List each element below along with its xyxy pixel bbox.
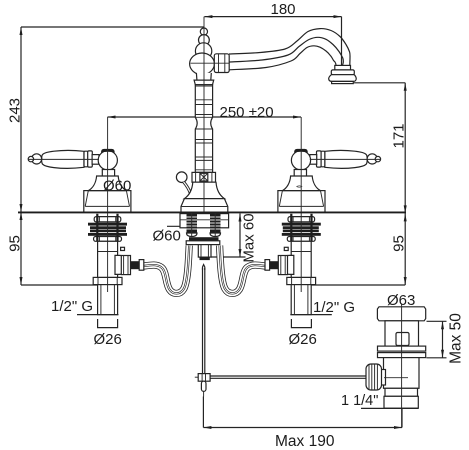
right hose collar [265,260,270,271]
column flare [194,80,214,85]
left escutcheon outer [84,191,131,213]
svg-text:180: 180 [271,1,296,18]
drain tailpiece lower [384,396,418,408]
spout outlet collar [335,65,351,70]
dimension 180 line [204,15,341,84]
left handle top cap [101,149,115,153]
set screw square [200,173,208,181]
left hose collar [139,260,144,271]
Ø60 center leader [167,221,184,227]
hub horizontal centerline [191,62,230,64]
right pipe lower [291,285,311,315]
deck line [18,211,406,213]
left handle group [28,149,131,212]
svg-text:Max 50: Max 50 [448,313,465,364]
1 1/4 underline [361,407,418,409]
right studs [310,214,312,241]
svg-text:1 1/4": 1 1/4" [341,393,378,409]
svg-text:243: 243 [6,98,23,123]
right top piece [288,217,315,222]
center mounting plate below deck [180,214,229,228]
svg-text:171: 171 [390,123,407,148]
svg-text:Ø60: Ø60 [103,178,131,195]
right ferrule [270,261,279,269]
Ø26 bracket right [291,319,311,328]
rod end capsule [201,381,206,391]
svg-text:Ø60: Ø60 [153,228,181,245]
right handle neck [310,155,317,165]
right coupling ring [287,277,316,284]
right escutcheon etching [297,186,302,188]
drain lower body [384,358,420,389]
center threaded stud right [210,214,221,233]
spout outlet bulge [329,75,357,82]
Ø26 bracket left [98,319,118,328]
drain knurled wheel neck [381,370,386,386]
svg-text:1/2" G: 1/2" G [313,299,355,316]
pop-up rod vertical [195,265,210,397]
left hex nut [121,256,130,275]
dimension 95 right vertical line [312,213,407,285]
center bracket dark bar [189,237,219,241]
spout collar ring [214,54,229,73]
left handle collar rings [84,151,88,167]
left pipe upper [98,241,118,277]
right 1/2G underline [290,314,332,316]
right handle group (mirror) [278,149,381,212]
left handle end nub [28,156,33,161]
center escutcheon dome [184,182,224,198]
svg-text:1/2" G: 1/2" G [51,298,93,315]
dimension Max 50 [427,321,447,358]
right handle end nub [375,156,380,161]
column centerline [203,17,205,212]
right handle stem [294,170,306,177]
dimension Max 190 [203,397,402,430]
right elbow bulge [283,255,293,274]
dimension Max 60 [211,214,246,258]
center unit centerlines below deck [191,213,193,236]
column collar block [192,172,216,182]
right escutcheon dome [282,176,320,191]
column tube [195,85,212,173]
right handle centerline horizontal [310,158,381,160]
center threaded stud left [187,214,198,233]
left valve centerline below deck [107,213,109,292]
dimension 95 left vertical line [20,212,99,285]
left handle stem [102,170,114,177]
center manifold bottom cap [200,257,210,260]
center bracket white plate [186,241,220,245]
right valve centerline below deck [300,213,302,292]
svg-text:Max 190: Max 190 [275,433,335,450]
center stud lower caps [187,233,198,237]
right handle pivot ball [291,151,310,170]
right valve under-deck group (mirror) [265,214,332,315]
right nut [287,237,315,242]
center escutcheon base [181,199,228,213]
left pipe lower [98,285,118,315]
left handle neck [92,155,99,165]
right handle end knob [367,154,377,164]
right handle grip [325,150,367,168]
spout outlet upper ring [331,70,354,75]
drain flange [377,307,425,321]
pop-up knob arm [184,182,191,195]
drain overflow window [396,333,409,346]
right escutcheon outer [278,191,325,213]
left coupling ring [93,277,122,284]
left handle grip [42,150,84,168]
left handle centerline vertical [107,117,109,212]
svg-text:Ø63: Ø63 [387,292,415,309]
drain locknut plate 2 [378,353,426,358]
left elbow bulge [115,255,125,274]
column neck [196,73,211,80]
right pipe bleed screw [284,247,288,250]
drain tailpiece upper [385,388,418,396]
pop-up horizontal rod [210,376,366,378]
left handle pivot ball [98,151,117,170]
spout arm [229,29,350,70]
drain upper body [385,321,419,346]
left ferrule [131,261,140,269]
svg-text:95: 95 [6,235,23,252]
left studs [96,214,98,241]
left pipe bleed screw [121,247,125,250]
right pipe upper [291,241,311,277]
dimension 250 ±20 line [108,116,302,119]
svg-text:250 ±20: 250 ±20 [220,104,274,121]
column finial mid ball [199,35,210,46]
left handle centerline horizontal [28,158,99,160]
right handle centerline vertical [300,117,302,212]
right washer bars [282,223,321,226]
rod clamp [198,374,210,382]
left valve under-deck group [77,214,144,315]
center manifold block [198,245,211,258]
column finial large ball [195,43,211,59]
column finial small ball [200,28,207,35]
drain locknut plate 1 [378,346,426,351]
dimension 243 top reference line [21,26,204,28]
drain centerline [401,304,403,428]
left nut [94,237,122,242]
right handle top cap [294,149,308,153]
column hub ball [190,53,215,75]
right hex nut [278,256,287,275]
spout outlet bottom ring [332,81,354,83]
dimension 171 vertical line [354,83,407,214]
left escutcheon dome [88,176,126,191]
svg-text:Max 60: Max 60 [240,213,257,262]
left handle end knob [31,154,41,164]
left top piece [94,217,121,222]
left hose [144,246,189,294]
svg-text:Ø26: Ø26 [94,331,122,348]
drain knurled wheel [366,364,382,390]
right hose [220,246,265,294]
svg-text:95: 95 [390,235,407,252]
svg-text:Ø26: Ø26 [289,331,317,348]
pop-up lift knob [176,172,187,183]
dimension 243 vertical line [20,27,23,212]
left 1/2G underline [77,314,119,316]
right handle collar rings [321,151,325,167]
left washer bars [88,223,127,226]
